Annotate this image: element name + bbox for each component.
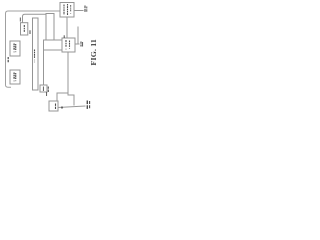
block U6 (left box 1) (10, 41, 20, 56)
label text inside U4 (bus name) (34, 50, 36, 64)
wire U3 top elbow to U9 (23, 14, 47, 23)
wire U8 right to numeral leader (58, 106, 85, 108)
block U5 (small box at frame bottom) (40, 85, 47, 92)
wire U2 bottom down to junction (67, 52, 69, 93)
block U2 (middle box) (62, 38, 75, 52)
block U7 (left box 2) (10, 70, 20, 84)
numeral at end of U8 wire (86, 101, 88, 111)
numeral right of U5 (47, 87, 49, 93)
wire U1 bottom to U2 top (66, 17, 68, 38)
label text inside U1 (two rotated lines) (63, 5, 65, 16)
block U8 (bottom box) (49, 101, 58, 111)
junction dot on U8 output wire (61, 106, 63, 108)
wire junction right step down (68, 93, 74, 105)
block U3 (small box upper-left) (21, 23, 28, 35)
numeral right of U3 bottom corner (29, 30, 31, 34)
wire U9 bottom-right into U2 upper-left (54, 39, 62, 41)
wire branch into U2 lower-left (44, 49, 63, 51)
leader for numeral near U2 right (75, 27, 79, 44)
numeral right of U2 (80, 42, 82, 48)
label text inside U6 (13, 44, 15, 54)
svg-text:FIG. 11: FIG. 11 (89, 39, 98, 66)
narrow block U9 hanging from frame top (46, 14, 54, 41)
label text inside U2 (65, 40, 67, 50)
numeral above U3 (19, 18, 21, 22)
label text inside U3 (23, 25, 25, 33)
wire U9 bottom-left down to U5 (44, 40, 47, 85)
label text inside U7 (13, 73, 15, 83)
numeral above U2 top-left (63, 35, 65, 38)
numeral 210 top right (84, 6, 86, 14)
block U1 (top box) (60, 3, 74, 18)
leader line to numeral 210 (74, 10, 83, 12)
label mark inside U8 (55, 104, 57, 110)
numeral between U6 and U7 (7, 57, 9, 63)
label mark inside U5 (42, 87, 44, 92)
tall block U4 (bus) (33, 18, 39, 90)
dashed module boundary frame (6, 11, 61, 87)
wire junction left to U8 top (57, 93, 68, 101)
